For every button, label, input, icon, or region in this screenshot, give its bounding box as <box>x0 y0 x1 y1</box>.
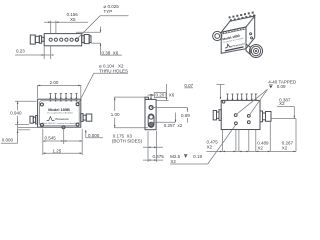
svg-text:M2.5: M2.5 <box>170 154 181 159</box>
svg-text:0.375: 0.375 <box>153 154 165 159</box>
svg-text:0.20: 0.20 <box>156 93 165 98</box>
svg-text:0.38 X6: 0.38 X6 <box>102 50 119 55</box>
svg-text:0.09: 0.09 <box>277 84 286 89</box>
svg-text:1.00: 1.00 <box>111 112 120 117</box>
svg-text:X2: X2 <box>279 101 285 106</box>
svg-text:0.940: 0.940 <box>10 111 22 116</box>
svg-text:DC Coupled Servo Amplifier: DC Coupled Servo Amplifier <box>47 112 73 115</box>
svg-text:X2: X2 <box>207 144 213 149</box>
svg-text:X6: X6 <box>169 93 175 98</box>
svg-text:0.000: 0.000 <box>88 133 100 138</box>
svg-text:0.23: 0.23 <box>16 49 25 54</box>
svg-text:Model 185B DC Coupled Servo Am: Model 185B DC Coupled Servo Amplifier <box>42 122 78 125</box>
svg-text:0.19: 0.19 <box>193 154 202 159</box>
svg-text:TYP: TYP <box>104 9 113 14</box>
svg-text:X2: X2 <box>257 146 263 151</box>
svg-text:X2: X2 <box>282 145 288 150</box>
svg-text:X5: X5 <box>70 17 76 22</box>
svg-text:0.545: 0.545 <box>45 135 57 140</box>
svg-text:THRU HOLES: THRU HOLES <box>99 68 128 73</box>
svg-text:1.25: 1.25 <box>53 148 62 153</box>
svg-text:0.69: 0.69 <box>181 113 190 118</box>
svg-text:0.000: 0.000 <box>2 137 14 142</box>
svg-text:0.257 x2: 0.257 x2 <box>164 123 183 128</box>
svg-text:2.00: 2.00 <box>50 80 59 85</box>
svg-text:Picosecond: Picosecond <box>232 43 245 48</box>
svg-text:Model 185B: Model 185B <box>48 107 70 112</box>
svg-text:X2: X2 <box>170 159 176 164</box>
svg-text:(BOTH SIDES): (BOTH SIDES) <box>112 139 143 144</box>
svg-text:Picosecond: Picosecond <box>56 119 69 121</box>
